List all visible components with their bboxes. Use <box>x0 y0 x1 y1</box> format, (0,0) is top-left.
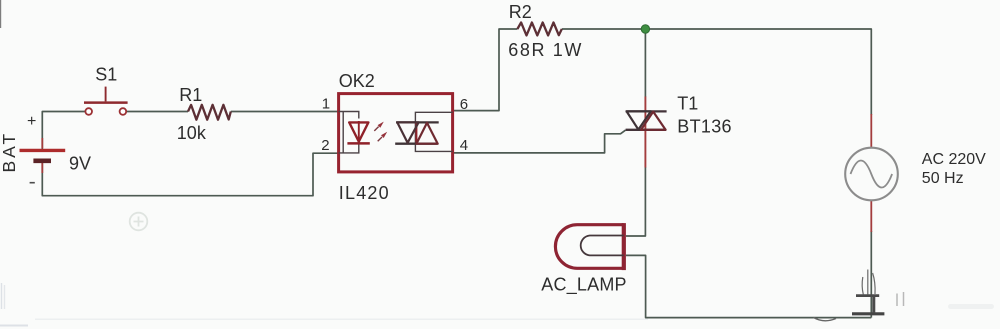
svg-text:68R 1W: 68R 1W <box>508 40 583 60</box>
svg-text:2: 2 <box>321 137 329 154</box>
svg-text:BT136: BT136 <box>677 117 732 137</box>
svg-text:9V: 9V <box>69 154 91 174</box>
svg-text:4: 4 <box>460 137 468 154</box>
svg-text:AC_LAMP: AC_LAMP <box>541 275 626 296</box>
svg-text:S1: S1 <box>95 65 117 85</box>
svg-text:R2: R2 <box>509 2 532 22</box>
svg-text:BAT: BAT <box>0 131 19 173</box>
svg-text:1: 1 <box>322 95 330 112</box>
svg-text:OK2: OK2 <box>339 71 375 91</box>
svg-text:IL420: IL420 <box>339 183 390 203</box>
svg-text:+: + <box>27 113 36 130</box>
svg-text:AC 220V: AC 220V <box>922 151 986 168</box>
svg-text:50 Hz: 50 Hz <box>922 170 964 187</box>
svg-text:10k: 10k <box>177 123 207 143</box>
svg-text:R1: R1 <box>179 85 202 105</box>
svg-text:6: 6 <box>460 96 468 113</box>
svg-text:T1: T1 <box>677 94 698 114</box>
